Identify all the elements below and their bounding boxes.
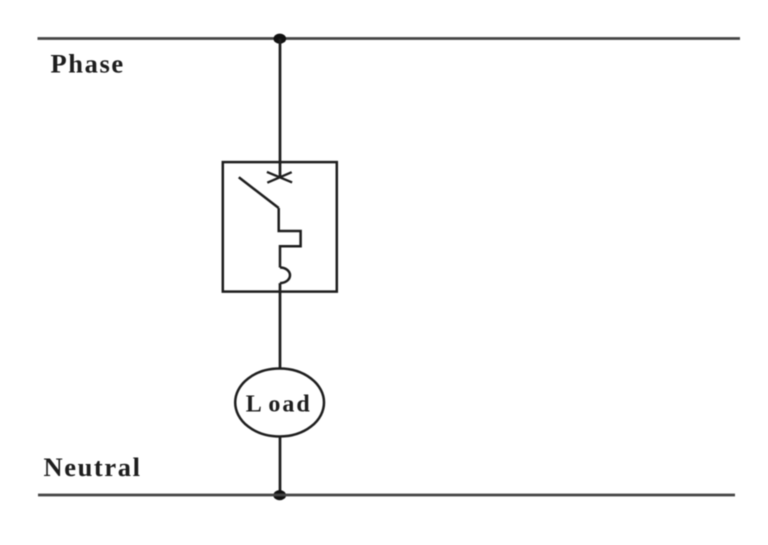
circuit breaker CB1 enclosure <box>223 162 337 292</box>
svg-text:Neutral: Neutral <box>44 452 142 482</box>
breaker contact X <box>267 172 292 183</box>
breaker magnetic coil <box>280 268 290 284</box>
phase bus wire <box>38 37 741 40</box>
wire breaker to load <box>279 283 282 369</box>
wire load to neutral <box>279 437 282 496</box>
svg-text:Phase: Phase <box>51 49 125 79</box>
node neutral junction <box>273 490 286 500</box>
breaker switch blade <box>239 177 279 208</box>
node phase junction <box>274 34 287 44</box>
svg-text:Load: Load <box>246 392 312 418</box>
wire phase to breaker <box>279 39 282 178</box>
neutral bus wire <box>38 494 735 497</box>
breaker thermal element <box>279 208 301 268</box>
load M1 circle <box>235 369 324 437</box>
